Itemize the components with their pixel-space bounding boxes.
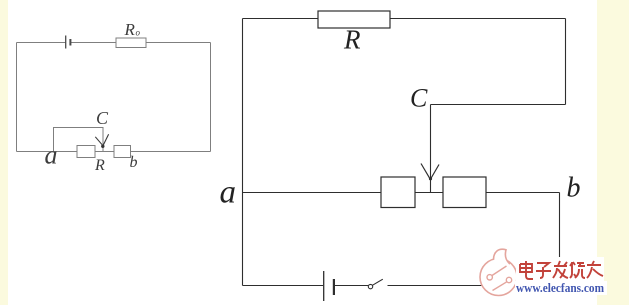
wire: left vertical of right loop [242, 19, 244, 286]
烧 [570, 262, 585, 278]
wiper arrow (left circuit) [95, 134, 108, 145]
wire: right vertical of left loop [210, 43, 212, 152]
left page-edge yellow strip [0, 0, 8, 305]
wire: right upper vertical (to node C wire) [565, 19, 567, 105]
友 [587, 261, 603, 278]
wire: top of left loop (left of battery) [17, 42, 66, 44]
wire: bottom right segment after switch [388, 285, 560, 287]
switch S [368, 279, 383, 289]
svg-text:R: R [94, 157, 105, 174]
svg-text:b: b [567, 173, 581, 204]
wire: bottom of left loop [17, 151, 211, 153]
wire: top of left loop (battery to Ro) [71, 42, 117, 44]
wire: left vertical of left loop [16, 43, 18, 152]
watermark logo circle [480, 249, 517, 295]
wire: bottom segment battery-to-switch [335, 285, 369, 287]
label R0 [124, 20, 141, 39]
svg-text:R: R [124, 20, 136, 39]
battery cell (right circuit) [324, 271, 334, 301]
svg-text:www.elecfans.com: www.elecfans.com [516, 281, 605, 295]
wire: bottom left segment [243, 285, 324, 287]
svg-text:a: a [220, 175, 237, 211]
battery cell (left circuit) [66, 36, 71, 49]
svg-text:C: C [96, 108, 109, 128]
wire: node C horizontal [431, 104, 566, 106]
watermark text white glow backing [516, 257, 604, 282]
potentiometer R right half box [114, 146, 131, 158]
发 [553, 261, 568, 278]
wire: middle horizontal a-b [243, 192, 560, 194]
wiper arrowhead (right circuit) [421, 164, 439, 180]
wire: right lower vertical (b down) [559, 193, 561, 286]
svg-text:b: b [130, 154, 138, 171]
svg-text:o: o [136, 28, 141, 38]
svg-text:C: C [410, 84, 428, 113]
电 [520, 261, 533, 279]
potentiometer right half box (right circuit) [443, 177, 486, 208]
resistor R box (right circuit) [318, 11, 390, 28]
子 [536, 263, 551, 278]
watermark text 电子发烧友 (drawn strokes) [520, 261, 603, 279]
potentiometer left half box (right circuit) [381, 177, 415, 208]
wire: top of right loop [243, 18, 566, 20]
wire: wiper vertical from C [430, 105, 432, 193]
junction dot at wiper contact [101, 145, 104, 148]
svg-text:a: a [45, 141, 58, 170]
potentiometer R left half box [77, 146, 95, 158]
wiper loop wire (left circuit, C to a-side) [54, 128, 104, 152]
svg-text:R: R [343, 25, 361, 55]
junction dot at wiper tip [429, 177, 432, 180]
wire: top of left loop (Ro to right corner) [146, 42, 211, 44]
resistor R0 box [116, 38, 146, 48]
right page-edge yellow strip [597, 0, 629, 305]
